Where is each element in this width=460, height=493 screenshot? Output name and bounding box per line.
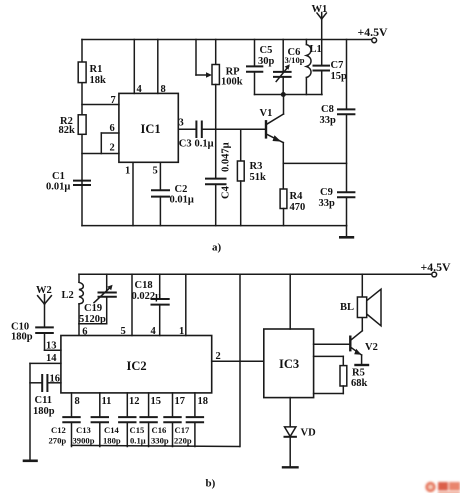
resistor R4 — [280, 189, 287, 226]
wire pin18 IC2 / capacitor C17 — [187, 393, 203, 447]
svg-text:W1: W1 — [312, 4, 328, 15]
svg-text:C11: C11 — [35, 395, 53, 406]
capacitor C19 (trimmer) — [94, 274, 116, 324]
svg-text:13: 13 — [46, 341, 57, 352]
inductor L2 — [79, 274, 83, 324]
svg-text:330p: 330p — [151, 436, 169, 446]
ground (VD) — [283, 466, 298, 468]
capacitor C1 — [74, 181, 90, 185]
svg-text:L2: L2 — [62, 290, 74, 301]
svg-text:C4: C4 — [221, 185, 232, 199]
svg-text:IC1: IC1 — [141, 122, 161, 136]
svg-text:R3: R3 — [250, 161, 263, 172]
capacitor C4 — [206, 179, 226, 226]
wire pin7 IC1 — [82, 104, 119, 106]
svg-text:IC3: IC3 — [279, 357, 299, 371]
svg-text:C12: C12 — [51, 425, 66, 435]
wire pin3 IC1 — [178, 128, 196, 130]
svg-text:15p: 15p — [331, 71, 348, 82]
capacitor C3 — [196, 122, 265, 138]
wire top rail a — [82, 39, 372, 41]
wire pin6 IC2 — [78, 324, 80, 336]
op-amp IC2 — [61, 336, 212, 393]
svg-text:BL: BL — [340, 302, 354, 313]
svg-text:5: 5 — [153, 166, 158, 177]
svg-text:15: 15 — [151, 396, 162, 407]
op-amp IC3 — [264, 329, 314, 398]
capacitor C10 — [36, 327, 53, 350]
potentiometer RP — [196, 40, 219, 179]
capacitor C6 (trimmer) — [274, 40, 291, 95]
svg-text:C9: C9 — [320, 187, 333, 198]
svg-text:6: 6 — [82, 327, 87, 338]
svg-text:2: 2 — [216, 351, 221, 362]
resistor R3 — [237, 129, 244, 225]
svg-text:5: 5 — [121, 326, 126, 337]
wire pin8 IC1 — [157, 40, 159, 94]
ground (left, section b) — [24, 459, 37, 462]
svg-text:VD: VD — [301, 428, 317, 439]
wire R5 bottom to IC3 — [314, 393, 344, 395]
wire pin4 IC1 — [133, 40, 135, 94]
transistor V2 — [350, 318, 362, 365]
wire emitter to C9 — [283, 162, 346, 164]
svg-text:C15: C15 — [130, 425, 145, 435]
svg-text:C13: C13 — [76, 425, 91, 435]
svg-text:V1: V1 — [260, 108, 273, 119]
svg-text:82k: 82k — [59, 125, 76, 136]
svg-text:33p: 33p — [320, 115, 337, 126]
svg-text:18: 18 — [198, 396, 209, 407]
svg-text:180p: 180p — [103, 436, 121, 446]
wire pin4 IC2 / capacitor C18 — [152, 274, 169, 335]
svg-text:0.022μ: 0.022μ — [132, 291, 162, 302]
svg-text:11: 11 — [102, 396, 112, 407]
ground (section a) — [340, 226, 353, 238]
svg-text:C18: C18 — [135, 280, 153, 291]
svg-text:3: 3 — [179, 118, 184, 129]
antenna W2 — [38, 295, 52, 328]
svg-text:C5: C5 — [260, 45, 273, 56]
svg-text:12: 12 — [129, 396, 140, 407]
wire pin17 IC2 / capacitor C16 — [164, 393, 180, 447]
svg-text:4: 4 — [137, 84, 143, 95]
wire pin8 IC2 / capacitor C12 — [63, 393, 79, 447]
svg-text:1: 1 — [125, 166, 130, 177]
svg-text:33p: 33p — [319, 198, 336, 209]
svg-text:C14: C14 — [104, 425, 120, 435]
antenna W1 — [317, 13, 326, 66]
svg-text:270p: 270p — [49, 436, 67, 446]
svg-text:100k: 100k — [221, 77, 243, 88]
svg-text:8: 8 — [161, 84, 166, 95]
capacitor C7 — [314, 66, 330, 95]
wire pin14 IC2 — [30, 362, 61, 364]
capacitor C2 — [152, 190, 169, 225]
wire pin15 IC2 / capacitor C15 — [140, 393, 156, 447]
wire bottom rail a — [82, 225, 347, 227]
wire pin12 IC2 / capacitor C14 — [119, 393, 135, 447]
op-amp IC1 — [119, 93, 178, 162]
svg-text:b): b) — [206, 478, 216, 490]
svg-text:C16: C16 — [152, 425, 168, 435]
wire pin5 IC1 — [159, 162, 161, 190]
svg-text:18k: 18k — [90, 75, 107, 86]
svg-text:a): a) — [212, 242, 222, 254]
svg-text:8: 8 — [75, 396, 80, 407]
svg-text:V2: V2 — [365, 342, 378, 353]
wire bus riser — [239, 274, 241, 446]
svg-text:R4: R4 — [290, 191, 304, 202]
svg-text:+4.5V: +4.5V — [358, 25, 388, 39]
svg-text:0.01μ: 0.01μ — [46, 182, 70, 193]
resistor R2 — [78, 115, 86, 135]
diode VD — [285, 398, 296, 467]
svg-text:R1: R1 — [90, 64, 103, 75]
svg-text:68k: 68k — [351, 378, 368, 389]
svg-text:30p: 30p — [258, 56, 275, 67]
svg-text:IC2: IC2 — [127, 359, 147, 373]
svg-text:2: 2 — [110, 143, 115, 154]
svg-text:4: 4 — [151, 326, 157, 337]
svg-text:3900p: 3900p — [73, 436, 95, 446]
wire pin1 IC1 — [132, 162, 134, 225]
wire pin6 IC1 — [101, 133, 119, 154]
svg-text:C7: C7 — [331, 60, 344, 71]
svg-text:0.047μ: 0.047μ — [221, 142, 232, 172]
wire IC3 top — [289, 274, 291, 329]
inductor L1 — [306, 40, 311, 95]
wire pin2 IC1 — [82, 153, 119, 155]
svg-text:6: 6 — [110, 123, 115, 134]
svg-text:1: 1 — [179, 326, 184, 337]
svg-text:W2: W2 — [36, 285, 52, 296]
wire pin2 IC2 — [212, 360, 264, 362]
svg-text:51k: 51k — [250, 172, 267, 183]
wire left rail a — [81, 40, 83, 226]
capacitor C9 — [338, 192, 354, 225]
resistor R1 — [78, 62, 86, 83]
svg-text:16: 16 — [50, 374, 61, 385]
svg-text:C8: C8 — [321, 104, 334, 115]
svg-text:7: 7 — [111, 95, 116, 106]
wire pin13 IC2 — [45, 349, 61, 351]
svg-text:+4.5V: +4.5V — [421, 260, 451, 274]
capacitor C5 — [247, 40, 262, 95]
wire IC3 to V2 base — [314, 343, 350, 345]
svg-text:0.1μ: 0.1μ — [130, 436, 146, 446]
resistor R5 — [340, 366, 347, 394]
svg-text:0.01μ: 0.01μ — [170, 195, 194, 206]
svg-text:470: 470 — [290, 202, 306, 213]
svg-text:220p: 220p — [174, 436, 192, 446]
svg-text:C2: C2 — [175, 184, 188, 195]
svg-text:0.1μ: 0.1μ — [195, 139, 214, 150]
wire pin16 IC2 / capacitor C11 — [30, 375, 61, 391]
wire capacitor bus — [72, 445, 240, 446]
speaker BL — [357, 274, 381, 326]
svg-text:C19: C19 — [84, 303, 102, 314]
capacitor C8 — [338, 40, 354, 193]
svg-text:14: 14 — [46, 353, 57, 364]
svg-text:L1: L1 — [310, 44, 322, 55]
node tank junction dot — [281, 92, 286, 97]
wire top rail b — [79, 273, 432, 275]
ground (V2 emitter) — [356, 364, 369, 366]
svg-text:17: 17 — [175, 396, 186, 407]
svg-text:5120p: 5120p — [79, 314, 106, 325]
svg-text:C1: C1 — [52, 171, 65, 182]
node +4.5V terminal b — [432, 272, 437, 277]
wire pin11 IC2 / capacitor C13 — [92, 393, 108, 447]
svg-text:C3: C3 — [179, 139, 192, 150]
wire IC3 to R5 top — [314, 356, 344, 365]
wire tank bottom — [255, 94, 323, 96]
transistor V1 — [266, 95, 284, 190]
svg-text:180p: 180p — [11, 332, 33, 343]
wire left ground rail b — [29, 363, 31, 460]
node +4.5V terminal a — [372, 38, 377, 43]
svg-text:180p: 180p — [33, 406, 55, 417]
wire pin5 IC2 — [131, 274, 133, 335]
svg-text:C17: C17 — [175, 425, 191, 435]
wire L2/C19 bottom — [79, 323, 107, 325]
wire pin1 IC2 — [185, 274, 187, 335]
svg-text:3/10p: 3/10p — [285, 55, 305, 65]
